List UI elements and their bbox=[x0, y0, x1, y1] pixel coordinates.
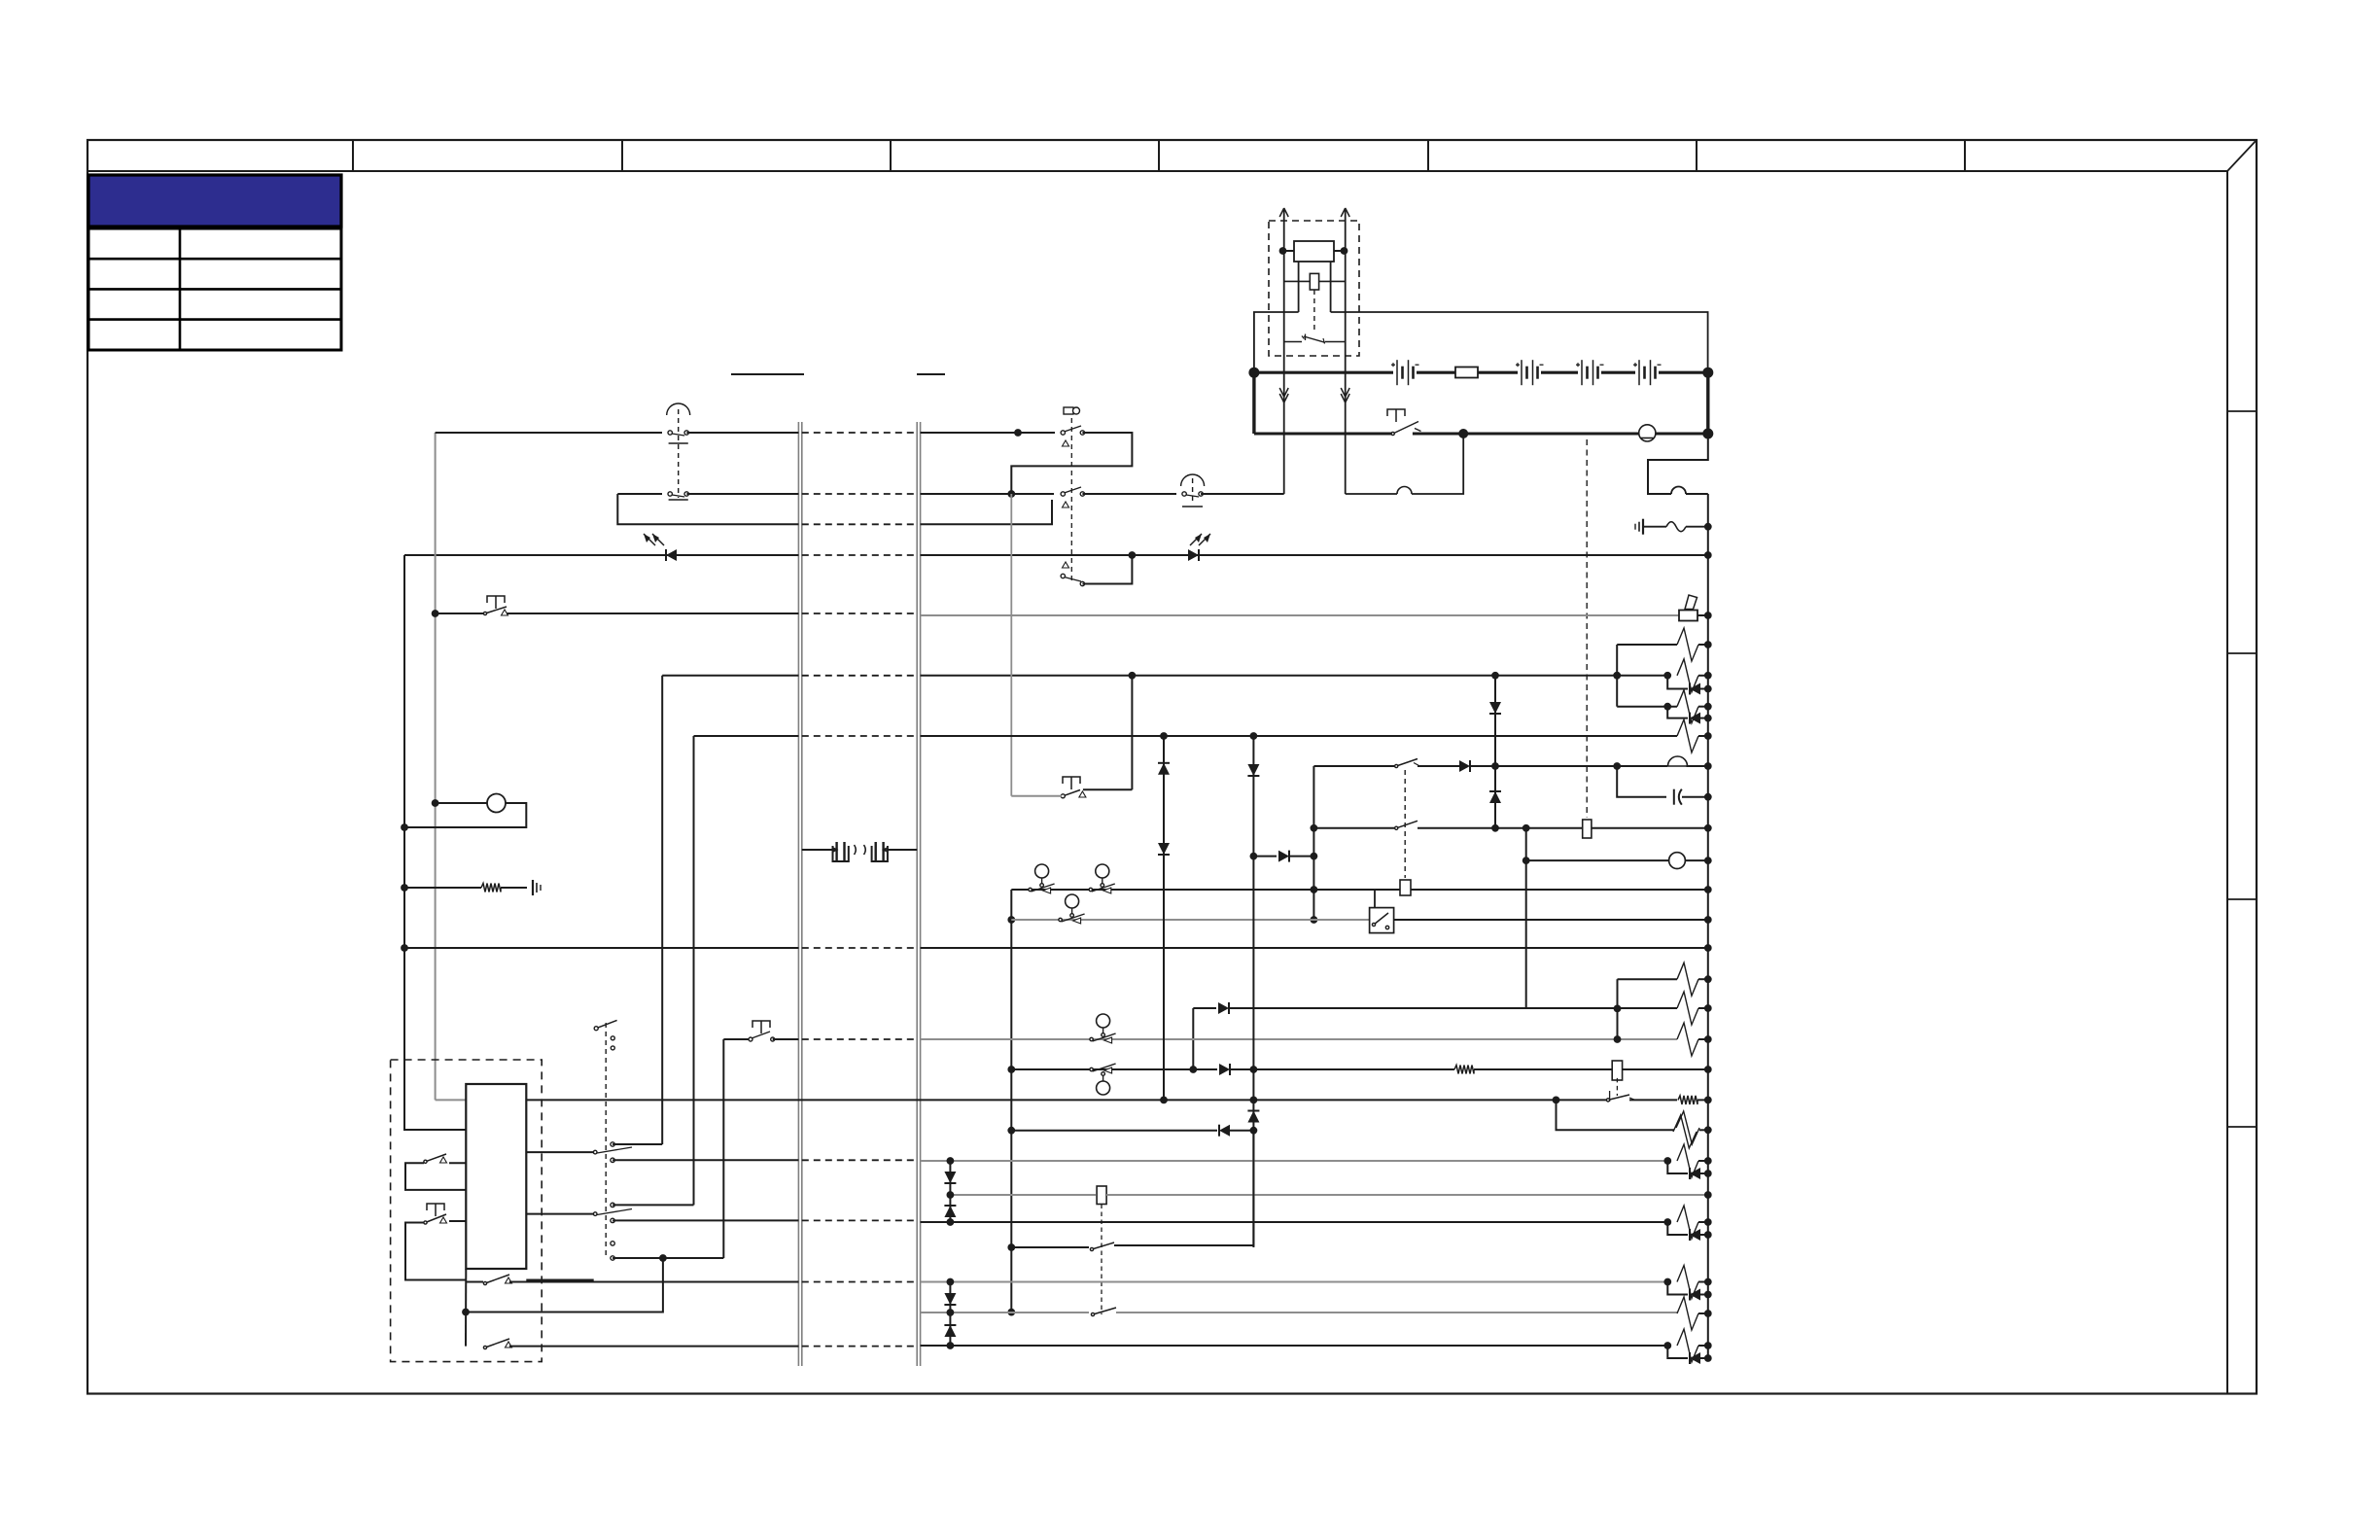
diode D5 bbox=[1489, 790, 1501, 792]
switch SU2 loop + T handle bbox=[427, 1204, 444, 1216]
thermo switch TS2 bbox=[1096, 864, 1109, 878]
node trunk 1229 bbox=[1704, 1191, 1712, 1199]
right margin zone ticks bbox=[2227, 410, 2257, 412]
node trunk 757 bbox=[1704, 732, 1712, 740]
wire vertical left with arrows bbox=[1283, 210, 1285, 494]
node 852c bbox=[1311, 824, 1318, 832]
node trunk 788 bbox=[1704, 762, 1712, 770]
wire left black vertical bbox=[404, 555, 466, 1130]
title block table bbox=[88, 228, 341, 350]
battery cell B2 bbox=[1521, 360, 1522, 385]
switch S-pull2 bbox=[1182, 492, 1186, 496]
node trunk 1007 bbox=[1704, 975, 1712, 983]
wire connector row bbox=[802, 849, 833, 851]
relay coil K2 bbox=[1583, 820, 1592, 838]
wire row 1100 bbox=[1011, 1068, 1190, 1070]
wire row 695 bbox=[662, 675, 798, 677]
sheet outer border frame bbox=[87, 140, 2257, 1394]
node trunk 946 bbox=[1704, 916, 1712, 924]
inner link row bbox=[1284, 280, 1311, 282]
wire vertical 715 bbox=[693, 736, 695, 1205]
node trunk 1318 bbox=[1704, 1278, 1712, 1286]
diode column 1 bbox=[1163, 736, 1165, 1100]
thermo switch TS4 bbox=[1097, 1014, 1110, 1028]
switch S-hazard-b bbox=[1396, 821, 1417, 828]
wire sub loop left bbox=[1346, 493, 1397, 495]
dashed link hazard bbox=[1404, 770, 1406, 878]
thermo switch TS5 bbox=[1097, 1081, 1110, 1095]
diode D15 bbox=[1667, 1222, 1688, 1235]
dashed module box bottom-left bbox=[391, 1060, 542, 1362]
diode stack col 977 upper bbox=[949, 1161, 951, 1222]
diode D11 bbox=[1247, 764, 1259, 776]
node B bbox=[1007, 490, 1015, 498]
diode D14 bbox=[1667, 1161, 1688, 1173]
node 975 bbox=[401, 944, 408, 952]
wire row 539 bbox=[617, 494, 798, 524]
node E bbox=[1553, 1097, 1560, 1104]
node trunk 1194 bbox=[1704, 1157, 1712, 1165]
node 851 bbox=[401, 823, 408, 831]
resistor R9 bbox=[1678, 1096, 1697, 1104]
node 788a bbox=[1491, 762, 1499, 770]
node trunk 1257 bbox=[1704, 1218, 1712, 1226]
diode D12 bbox=[1247, 1110, 1259, 1112]
diode D20 bbox=[944, 1324, 956, 1326]
switch S-hazard-a bbox=[1396, 759, 1417, 767]
dashed link to switch bbox=[1313, 290, 1315, 332]
switch S-low2 row 1384 bbox=[485, 1339, 509, 1347]
wire loop above battery bbox=[1254, 312, 1299, 372]
node 695a bbox=[1129, 672, 1137, 680]
resistor R-gnd bbox=[404, 887, 481, 889]
switch inside dashed box bbox=[1284, 341, 1302, 343]
contact S2 of SW-A bbox=[1061, 492, 1065, 496]
node 788b bbox=[1613, 762, 1621, 770]
diode D2 bbox=[1667, 707, 1688, 718]
thermo switch TS1 bbox=[1035, 864, 1049, 878]
node 695c bbox=[1613, 672, 1621, 680]
diode D18 bbox=[1667, 1282, 1688, 1295]
node trunk 727 bbox=[1704, 703, 1712, 711]
resistor R4 bbox=[1677, 719, 1698, 752]
node trunk 820 bbox=[1704, 793, 1712, 801]
node bus left bbox=[1248, 367, 1259, 378]
wire row 852 bbox=[1313, 827, 1394, 829]
diode D7 bbox=[1218, 1002, 1229, 1014]
node bus right bbox=[1702, 367, 1713, 378]
node trunk 915 bbox=[1704, 886, 1712, 893]
node trunk 1037 bbox=[1704, 1004, 1712, 1012]
node trunk 708 bbox=[1704, 685, 1712, 693]
wire vertical 1227 bbox=[1192, 1008, 1194, 1069]
node trunk 633 bbox=[1704, 612, 1712, 619]
thermo switch TS3 bbox=[1066, 894, 1079, 908]
wire under box bbox=[465, 1269, 467, 1347]
wire vertical 1570 bbox=[1525, 828, 1527, 1008]
resistor R14 bbox=[1677, 1297, 1698, 1330]
node trunk 1270 bbox=[1704, 1231, 1712, 1239]
wire row 1229 gray bbox=[950, 1194, 1096, 1196]
relay box K6 bbox=[1097, 1186, 1106, 1205]
node 1294 bbox=[659, 1254, 667, 1262]
resistor R8 bbox=[1454, 1066, 1474, 1074]
dashed link from S-main down to relay coil K2 bbox=[1586, 439, 1588, 818]
SPDT dashed chain bbox=[605, 1023, 607, 1258]
resistor R11 bbox=[1677, 1144, 1698, 1177]
breaker squiggle bbox=[1666, 522, 1686, 532]
capacitor C1 bbox=[1673, 789, 1675, 805]
node trunk 1131 bbox=[1704, 1097, 1712, 1104]
node 852b bbox=[1522, 824, 1530, 832]
wire bracket bbox=[1616, 645, 1618, 707]
wire vertical 1538 diodes bbox=[1494, 676, 1496, 828]
node 1100a bbox=[1189, 1066, 1197, 1073]
wire row 1257 bbox=[612, 1219, 798, 1221]
controller box U1 bbox=[466, 1084, 526, 1269]
resistor R2 bbox=[1677, 659, 1698, 692]
battery bus bbox=[1254, 371, 1393, 374]
wire row 1131 bbox=[526, 1099, 1554, 1101]
SPDT top cross bbox=[596, 1020, 616, 1028]
wire row 1194 gray bbox=[612, 1159, 798, 1161]
wire long row 975 bbox=[404, 947, 798, 949]
lamp L2 circle row 885 bbox=[1526, 859, 1669, 861]
wire row 1350 bbox=[466, 1312, 663, 1313]
dashed link K5 bbox=[1616, 1078, 1618, 1096]
ground G2 bbox=[532, 880, 534, 895]
node 757b bbox=[1250, 732, 1258, 740]
SPDT1 ticks bbox=[593, 1150, 597, 1154]
node 913 bbox=[401, 884, 408, 892]
node trunk 541 bbox=[1704, 523, 1712, 531]
wire thick vertical right bbox=[1706, 372, 1709, 434]
wire gray vertical brake feed bbox=[1010, 494, 1012, 796]
node trunk 1384 bbox=[1704, 1342, 1712, 1349]
corner diagonal top-right bbox=[2227, 140, 2257, 171]
switch S-brake bbox=[1083, 788, 1133, 790]
diode D10 bbox=[1158, 843, 1170, 855]
resistor R3 bbox=[1617, 706, 1677, 708]
node 852a bbox=[1491, 824, 1499, 832]
SPDT3 ticks bbox=[611, 1242, 614, 1245]
dashed link K6 bbox=[1101, 1205, 1102, 1315]
node module bbox=[462, 1309, 470, 1316]
node gray 631 bbox=[432, 610, 439, 617]
node trunk 852 bbox=[1704, 824, 1712, 832]
node A bbox=[1014, 429, 1022, 437]
node trunk 1100 bbox=[1704, 1066, 1712, 1073]
dashed component box top bbox=[1269, 221, 1359, 356]
node trunk 663 bbox=[1704, 641, 1712, 648]
diode D21 bbox=[1667, 1346, 1688, 1358]
sender housing stubs bbox=[1298, 262, 1300, 312]
wire vertical 744 bbox=[722, 1039, 724, 1258]
diode D9 bbox=[1158, 762, 1170, 764]
resistor R5 bbox=[1618, 978, 1678, 980]
diode D16 bbox=[944, 1172, 956, 1183]
switch S-E bbox=[1608, 1095, 1629, 1100]
resistor R15 bbox=[1677, 1329, 1698, 1362]
diode D8 bbox=[1219, 1064, 1230, 1075]
diode D13 bbox=[1218, 1125, 1220, 1137]
resistor R7 bbox=[1677, 1023, 1698, 1056]
ground G1 bbox=[1642, 519, 1644, 535]
wire row 788 bbox=[1313, 765, 1394, 767]
resistor R1 bbox=[1617, 644, 1677, 646]
wire row 1163 bbox=[1011, 1130, 1217, 1132]
wire row 1037 bbox=[1193, 1007, 1216, 1009]
wire main right trunk bbox=[1686, 493, 1708, 495]
switch box S-box bbox=[1370, 908, 1394, 933]
wire row 1283 bbox=[1011, 1246, 1089, 1248]
switch SU1 loop bbox=[449, 1162, 466, 1164]
node trunk 1331 bbox=[1704, 1291, 1712, 1299]
label line 2 bbox=[917, 373, 945, 375]
node trunk 1397 bbox=[1704, 1354, 1712, 1362]
switch SW-A multi-pole bbox=[1064, 407, 1073, 414]
battery cell B3 bbox=[1581, 360, 1583, 385]
fuse element small box bbox=[1310, 273, 1318, 290]
connector J2 bbox=[872, 846, 888, 861]
lamp L-park circle bbox=[436, 802, 487, 804]
battery cell B4 bbox=[1638, 360, 1640, 385]
node right lead bbox=[1334, 250, 1345, 252]
resistor R6 bbox=[1677, 992, 1698, 1025]
inner border right line bbox=[2226, 171, 2228, 1394]
switch S-low1 row 1318 bbox=[466, 1281, 483, 1283]
node bus2 right bbox=[1702, 429, 1713, 439]
diode stack col 977 lower bbox=[949, 1282, 951, 1347]
wire thick vertical left bbox=[1252, 372, 1255, 434]
relay box K5 bbox=[1612, 1061, 1622, 1080]
node trunk 1162 bbox=[1704, 1126, 1712, 1134]
node trunk 695 bbox=[1704, 672, 1712, 680]
wire trunk jog below bus bbox=[1648, 434, 1708, 494]
switch S-pull1 bbox=[668, 431, 672, 435]
diode D3 bbox=[1459, 760, 1470, 772]
LED D-right bbox=[1188, 549, 1199, 561]
node trunk 885 bbox=[1704, 857, 1712, 864]
contact S3 of SW-A bbox=[1061, 574, 1065, 577]
diode D6 bbox=[1278, 851, 1289, 862]
header band column dividers bbox=[352, 140, 354, 171]
battery cell B1 bbox=[1396, 360, 1398, 385]
diode D19 bbox=[944, 1293, 956, 1305]
node trunk 1069 bbox=[1704, 1035, 1712, 1043]
node trunk 739 bbox=[1704, 715, 1712, 722]
wire row 757 bbox=[694, 735, 799, 737]
bell buzzer BZ1 bbox=[1668, 756, 1688, 766]
LED D-left bbox=[665, 549, 667, 561]
node gray 826 bbox=[432, 799, 439, 807]
wire vertical to SPDT bbox=[661, 676, 663, 1144]
bulkhead double line right bbox=[916, 422, 918, 1366]
switch S-main blade bbox=[1393, 422, 1418, 435]
node trunk 1351 bbox=[1704, 1310, 1712, 1317]
wire row 1239 bbox=[612, 1204, 693, 1206]
resistor R13 bbox=[1677, 1266, 1698, 1299]
wire branch 881 bbox=[1253, 856, 1277, 857]
switch S-1283 bbox=[1092, 1242, 1114, 1249]
diode D4 bbox=[1489, 702, 1501, 714]
wire vertical right with arrows bbox=[1345, 210, 1347, 494]
resistor R10 double bbox=[1676, 1111, 1699, 1144]
wire LED row bbox=[404, 554, 798, 556]
node 881 bbox=[1250, 853, 1258, 860]
title block blue header bbox=[88, 175, 341, 227]
wire 1177 link bbox=[612, 1143, 662, 1145]
node 695b bbox=[1491, 672, 1499, 680]
wire horn row gray bbox=[921, 614, 1679, 616]
wire vertical 682 low bbox=[466, 1258, 663, 1312]
box right pin rows bbox=[526, 1151, 595, 1153]
node 757a bbox=[1160, 732, 1168, 740]
connector J1 bbox=[833, 846, 849, 861]
resistor R12 bbox=[1677, 1206, 1698, 1239]
node bus2 mid bbox=[1458, 429, 1468, 438]
component U-top rectangle bbox=[1294, 241, 1334, 262]
wire vertical 1164 bbox=[1131, 676, 1133, 790]
wire gray vertical bbox=[435, 433, 437, 1100]
switch S-1350 bbox=[1093, 1308, 1116, 1314]
node trunk 975 bbox=[1704, 944, 1712, 952]
wire row 1069 gray bbox=[723, 1038, 749, 1040]
wire gray row 946 bbox=[1011, 919, 1370, 921]
node 1100b bbox=[1250, 1066, 1258, 1073]
ignition bus row bbox=[1254, 433, 1393, 436]
wire vertical 1351 bbox=[1312, 766, 1314, 920]
wire to double zigzag bbox=[1557, 1100, 1675, 1130]
node trunk 1207 bbox=[1704, 1170, 1712, 1177]
wire A row 445 bbox=[436, 432, 662, 434]
relay box K4 bbox=[1400, 880, 1411, 895]
wire bbox=[1643, 526, 1666, 528]
diode D1 bbox=[1667, 676, 1688, 689]
wire B row 508 bbox=[617, 493, 662, 495]
diode column 2 bbox=[1252, 736, 1254, 1247]
node LED row bbox=[1129, 551, 1137, 559]
bulkhead double line left bbox=[797, 422, 799, 1366]
wire bracket2 bbox=[1617, 979, 1619, 1039]
motor M1 circle bbox=[1639, 425, 1656, 441]
fuse F1 bbox=[1455, 367, 1478, 378]
horn H1 bbox=[1679, 611, 1697, 621]
label line 1 bbox=[731, 373, 804, 375]
diode D17 bbox=[944, 1205, 956, 1207]
wire lamp row 915 bbox=[1011, 889, 1708, 891]
wire row 1294 bbox=[612, 1257, 723, 1259]
capacitor branch bbox=[1617, 766, 1666, 797]
wire vertical 1040 bbox=[1010, 890, 1012, 1312]
node trunk 571 bbox=[1704, 551, 1712, 559]
SPDT2 ticks bbox=[593, 1212, 597, 1216]
node left lead bbox=[1283, 250, 1295, 252]
inner border top line bbox=[87, 170, 2227, 172]
